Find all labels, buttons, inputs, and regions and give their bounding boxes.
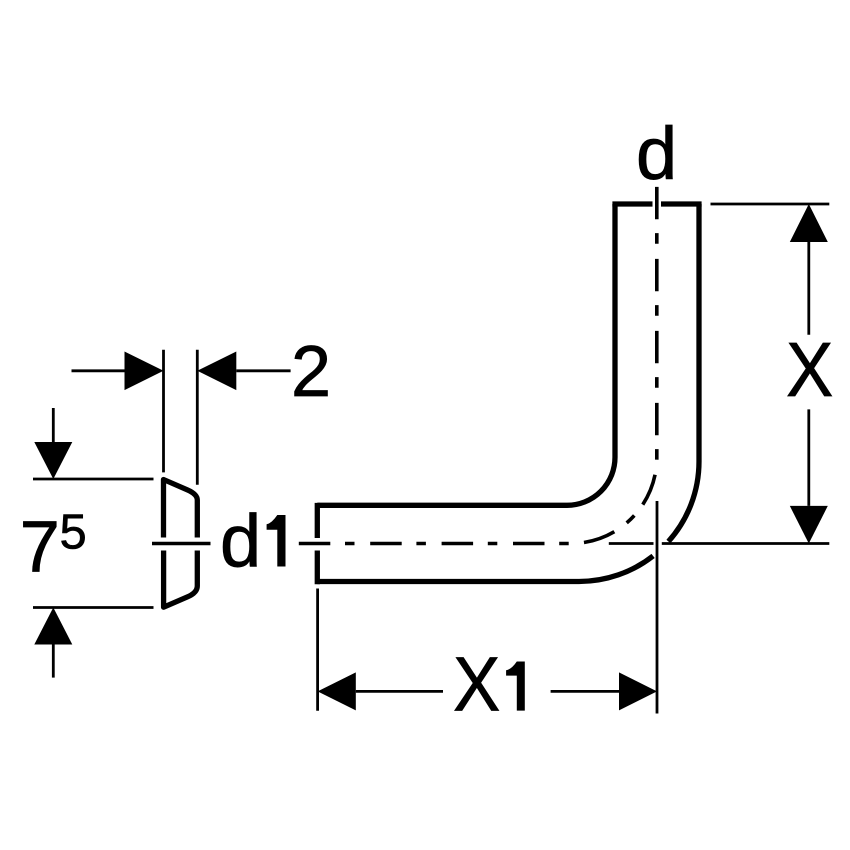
2 dim left extension line	[162, 350, 165, 473]
X1 dimension line left part	[356, 690, 443, 693]
X dim arrow up	[790, 204, 828, 242]
7.5 dim bottom extension line	[33, 606, 154, 609]
7.5 dim top arrow line	[52, 408, 55, 442]
pipe left end (with gap at centerline)	[315, 503, 320, 584]
X1 arrow left	[318, 672, 356, 710]
svg-text:7: 7	[20, 508, 60, 588]
gasket centerline	[152, 542, 211, 546]
2 dim right extension line	[196, 350, 199, 485]
svg-text:X: X	[453, 642, 500, 728]
label d1 digit 1	[267, 515, 286, 567]
X1 dimension line right part	[551, 690, 619, 693]
X1 arrow right	[619, 672, 657, 710]
X dimension line lower part	[807, 409, 810, 506]
label X1 digit 1	[506, 662, 525, 711]
2 dim right arrow	[197, 352, 236, 391]
X1 left extension line	[316, 589, 319, 711]
X dimension line upper part	[807, 242, 810, 335]
7.5 dim top extension line	[33, 478, 154, 481]
svg-text:d: d	[636, 112, 677, 195]
pipe inner edge: horizontal top, bend inner arc, vertical left edge	[317, 204, 615, 505]
X dim arrow down	[790, 506, 828, 544]
svg-text:2: 2	[291, 332, 331, 412]
pipe top edge (with gap at centerline)	[612, 201, 701, 206]
pipe outer edge lower segment: horizontal bottom + bend outer arc	[317, 556, 653, 582]
X dim top extension line	[711, 203, 830, 206]
2 dim left arrow	[125, 352, 164, 391]
vertical centerline with bend arc (dash-dot)	[571, 187, 657, 544]
7.5 dim top arrow	[34, 442, 72, 479]
X dim bottom extension line (gap at vertical line)	[609, 542, 830, 545]
horizontal centerline (dash-dot)	[299, 542, 571, 546]
2 dim left arrow line	[72, 369, 125, 372]
gasket lower half	[164, 551, 198, 608]
7.5 dim bottom arrow line	[52, 645, 55, 678]
7.5 dim bottom arrow	[34, 608, 72, 645]
gasket upper half	[164, 480, 198, 538]
svg-text:5: 5	[60, 506, 87, 560]
svg-text:X: X	[786, 327, 833, 413]
svg-text:d: d	[220, 500, 261, 583]
pipe outer edge upper segment: bend outer arc + vertical right edge	[668, 204, 699, 542]
X1 right extension line	[656, 501, 659, 714]
2 dim right arrow line	[236, 369, 290, 372]
